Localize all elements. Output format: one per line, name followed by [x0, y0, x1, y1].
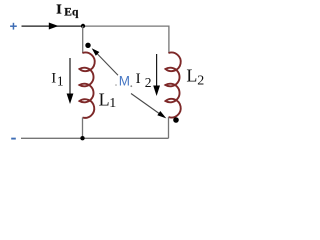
wire top-right to corner and down to L2 — [83, 26, 169, 53]
svg-text:2: 2 — [197, 74, 204, 89]
svg-text:L: L — [99, 90, 110, 110]
current arrow I2 — [156, 54, 158, 86]
node junction top (L1 tap) — [81, 24, 85, 28]
svg-text:L: L — [186, 65, 197, 85]
minus terminal — [11, 138, 16, 140]
wire from top junction down to L1 — [82, 26, 84, 53]
wire speck right of M — [130, 85, 132, 87]
plus terminal — [10, 23, 17, 30]
wire bottom return — [21, 137, 169, 139]
wire L1 bottom — [82, 118, 84, 139]
svg-text:Eq: Eq — [64, 6, 79, 18]
svg-text:2: 2 — [145, 75, 152, 90]
inductor L1 coil — [80, 53, 95, 118]
polarity dot L2 — [173, 117, 179, 123]
wire speck left of M — [115, 84, 117, 86]
mutual coupling arrow M lower segment — [131, 94, 162, 116]
svg-text:1: 1 — [109, 96, 116, 111]
mutual coupling arrow M upper segment — [97, 53, 119, 75]
wire top-left with IEq current arrow — [22, 25, 84, 27]
node junction bottom (L1 tap) — [80, 136, 84, 140]
svg-text:M: M — [119, 73, 130, 88]
polarity dot L1 — [85, 43, 90, 48]
IEq arrowhead — [49, 23, 59, 30]
svg-text:I: I — [136, 71, 141, 87]
svg-text:I: I — [51, 71, 56, 87]
svg-text:I: I — [56, 3, 61, 18]
wire L2 bottom — [168, 117, 170, 138]
current arrow I1 — [69, 58, 71, 94]
svg-text:1: 1 — [57, 74, 64, 89]
inductor L2 coil — [166, 53, 181, 118]
